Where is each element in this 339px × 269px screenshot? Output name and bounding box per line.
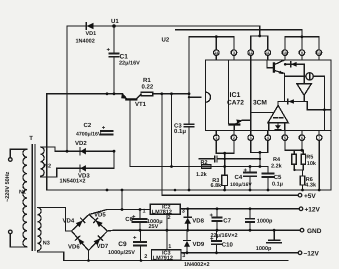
svg-text:1N5401×2: 1N5401×2 <box>60 178 86 184</box>
svg-text:11: 11 <box>266 51 270 55</box>
svg-text:R1: R1 <box>143 77 151 84</box>
svg-text:C9: C9 <box>118 241 127 248</box>
svg-text:C7: C7 <box>223 218 231 225</box>
svg-text:~220V 50Hz: ~220V 50Hz <box>5 171 11 202</box>
svg-text:12: 12 <box>249 51 253 55</box>
svg-text:VD7: VD7 <box>97 243 109 250</box>
svg-text:VD4: VD4 <box>63 217 75 224</box>
svg-text:14: 14 <box>214 51 218 55</box>
svg-text:1000μ/25V: 1000μ/25V <box>108 250 135 256</box>
svg-text:4.3k: 4.3k <box>305 183 317 189</box>
svg-text:+: + <box>133 235 137 241</box>
svg-text:22μ/16V: 22μ/16V <box>119 61 140 67</box>
svg-text:1: 1 <box>215 136 217 140</box>
svg-text:C10: C10 <box>222 241 234 248</box>
svg-text:3: 3 <box>250 136 252 140</box>
svg-text:3: 3 <box>233 51 235 55</box>
svg-text:+: + <box>244 168 248 174</box>
svg-text:R4: R4 <box>273 157 281 163</box>
svg-text:+: + <box>210 213 214 219</box>
svg-text:4: 4 <box>267 136 269 140</box>
svg-text:10k: 10k <box>307 161 317 167</box>
svg-text:C5: C5 <box>274 174 282 181</box>
svg-text:VT1: VT1 <box>135 101 147 108</box>
svg-text:+: + <box>210 237 214 243</box>
svg-text:3: 3 <box>182 253 185 259</box>
svg-text:VD6: VD6 <box>68 244 80 251</box>
svg-text:C1: C1 <box>120 54 129 61</box>
svg-text:+12V: +12V <box>305 206 321 213</box>
svg-text:2: 2 <box>144 254 147 260</box>
svg-text:+: + <box>107 48 111 54</box>
svg-text:22μ/16V×2: 22μ/16V×2 <box>211 233 238 239</box>
svg-text:U2: U2 <box>162 37 170 44</box>
svg-text:1000p: 1000p <box>256 246 272 252</box>
svg-text:100μ/16V: 100μ/16V <box>230 182 252 188</box>
svg-text:6.8k: 6.8k <box>211 183 223 189</box>
svg-text:13: 13 <box>317 51 321 55</box>
svg-text:1: 1 <box>168 244 171 250</box>
svg-text:1N4002: 1N4002 <box>76 38 95 44</box>
svg-text:0.1μ: 0.1μ <box>174 128 186 135</box>
svg-text:1: 1 <box>143 208 146 214</box>
svg-text:0.22: 0.22 <box>142 84 154 91</box>
svg-text:10: 10 <box>283 51 287 55</box>
svg-text:4700μ/16V: 4700μ/16V <box>76 131 102 137</box>
svg-text:VD5: VD5 <box>94 212 106 219</box>
svg-text:2: 2 <box>168 215 171 221</box>
svg-text:C4: C4 <box>235 174 243 181</box>
svg-text:6: 6 <box>301 136 303 140</box>
svg-text:0.1μ: 0.1μ <box>272 182 283 188</box>
svg-text:1.2k: 1.2k <box>196 172 208 178</box>
svg-text:+: + <box>132 214 136 220</box>
svg-text:25V: 25V <box>149 224 159 230</box>
svg-text:+: + <box>102 126 106 132</box>
svg-text:R5: R5 <box>306 155 313 161</box>
svg-text:CA72: CA72 <box>227 100 244 107</box>
svg-text:C2: C2 <box>84 122 92 129</box>
svg-text:−12V: −12V <box>304 251 320 258</box>
svg-text:VD1: VD1 <box>86 31 97 37</box>
svg-text:N1: N1 <box>19 190 26 196</box>
svg-text:2.2k: 2.2k <box>271 163 283 169</box>
svg-text:T: T <box>29 135 33 142</box>
svg-text:5: 5 <box>284 136 286 140</box>
svg-text:3CM: 3CM <box>253 100 267 107</box>
svg-text:1N4002×2: 1N4002×2 <box>184 262 210 268</box>
svg-text:R2: R2 <box>201 160 208 166</box>
svg-text:VD8: VD8 <box>192 217 204 224</box>
svg-text:2: 2 <box>233 136 235 140</box>
svg-text:LM7912: LM7912 <box>153 256 173 262</box>
svg-text:N3: N3 <box>43 240 50 246</box>
svg-text:+5V: +5V <box>304 193 316 200</box>
svg-text:GND: GND <box>307 228 322 235</box>
svg-text:1000p: 1000p <box>257 219 273 225</box>
svg-text:VD2: VD2 <box>75 140 87 147</box>
svg-text:VD9: VD9 <box>193 241 205 248</box>
svg-text:IC1: IC1 <box>230 92 241 99</box>
svg-text:N2: N2 <box>44 163 51 169</box>
svg-text:7: 7 <box>318 136 320 140</box>
svg-text:9: 9 <box>301 51 303 55</box>
svg-text:3: 3 <box>182 208 185 214</box>
svg-text:U1: U1 <box>111 18 119 25</box>
